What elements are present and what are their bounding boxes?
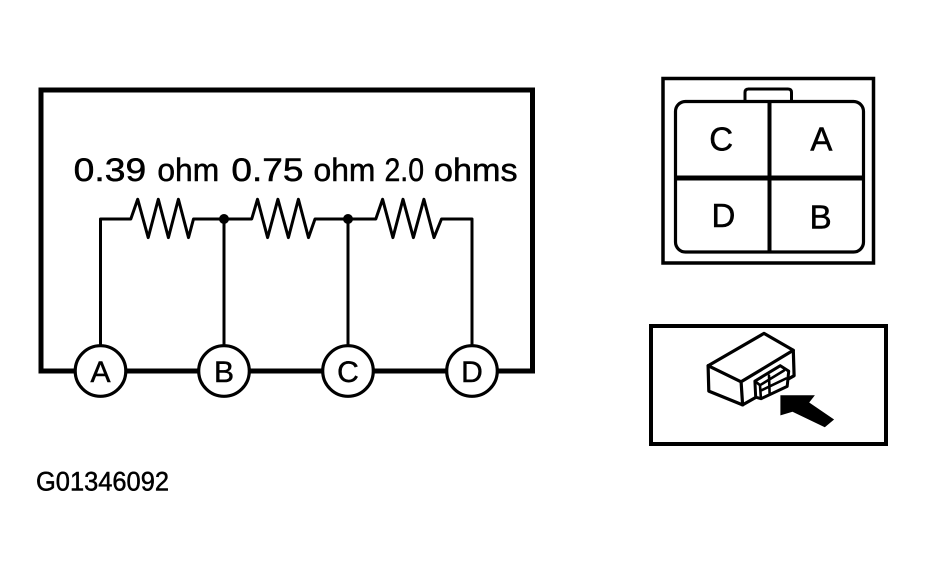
svg-text:0.39: 0.39	[74, 152, 147, 188]
svg-text:D: D	[711, 197, 735, 234]
svg-text:2.0: 2.0	[385, 152, 425, 188]
svg-text:ohm: ohm	[314, 152, 376, 188]
svg-text:B: B	[214, 356, 234, 389]
svg-text:C: C	[709, 121, 733, 158]
svg-text:B: B	[810, 199, 832, 236]
svg-text:D: D	[461, 356, 483, 389]
svg-text:G01346092: G01346092	[36, 467, 169, 497]
svg-text:A: A	[90, 356, 110, 389]
svg-text:C: C	[337, 356, 359, 389]
svg-text:0.75: 0.75	[231, 152, 303, 188]
svg-text:ohm: ohm	[157, 152, 219, 188]
svg-text:ohms: ohms	[434, 152, 518, 188]
svg-text:A: A	[810, 121, 832, 158]
